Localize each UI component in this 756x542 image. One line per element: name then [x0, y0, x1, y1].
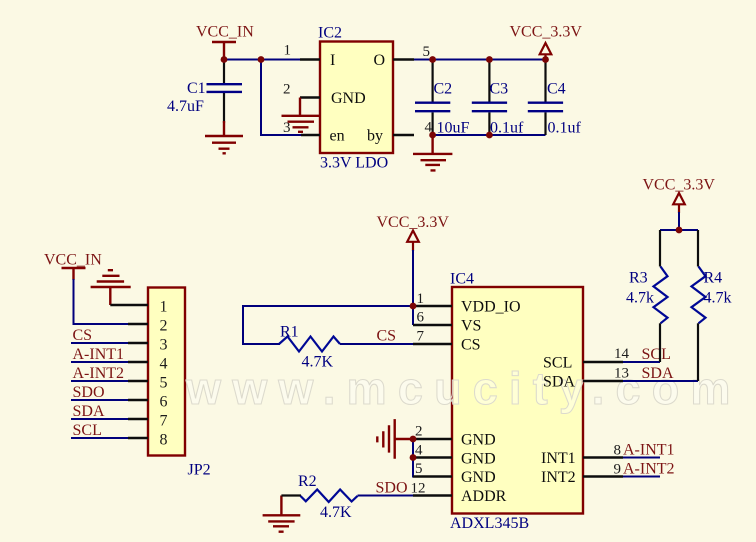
- power port VCC_3.3V (R3 R4): [673, 193, 685, 213]
- connector JP2 box: [148, 288, 185, 456]
- svg-text:R1: R1: [280, 324, 299, 341]
- svg-text:VS: VS: [461, 317, 481, 334]
- svg-text:VCC_3.3V: VCC_3.3V: [377, 214, 450, 231]
- power port VCC_IN (top): [212, 42, 236, 60]
- wire GND pins vertical: [413, 439, 452, 477]
- IC2 pin 3: [301, 134, 320, 136]
- svg-text:4.7K: 4.7K: [320, 504, 352, 521]
- IC4 pin 2 GND: [413, 438, 452, 440]
- svg-text:SDA: SDA: [543, 373, 575, 390]
- svg-text:1: 1: [160, 299, 168, 316]
- resistor R3: [659, 230, 661, 267]
- svg-text:R4: R4: [704, 270, 723, 287]
- IC4 pin 13 SDA: [583, 380, 623, 382]
- junction dot: [676, 227, 683, 234]
- svg-text:SCL: SCL: [73, 422, 102, 439]
- IC2 box: [320, 42, 393, 154]
- wire bottom rail: [433, 134, 546, 136]
- IC4 box: [452, 287, 583, 514]
- svg-text:1: 1: [417, 291, 425, 307]
- capacitor C4: [544, 60, 546, 136]
- svg-text:INT2: INT2: [541, 469, 576, 486]
- power port VCC_3.3V (top): [540, 43, 552, 60]
- svg-text:5: 5: [160, 375, 168, 392]
- svg-text:CS: CS: [461, 336, 481, 353]
- svg-text:10uF: 10uF: [437, 120, 470, 137]
- IC4 pin 1 VDD_IO: [413, 305, 452, 307]
- capacitor C2: [432, 60, 434, 136]
- svg-text:3: 3: [283, 120, 291, 136]
- IC4 pin 9 INT2: [583, 475, 623, 477]
- svg-text:4.7uF: 4.7uF: [167, 98, 204, 115]
- IC4 pin 12 ADDR: [413, 494, 452, 496]
- wire net SDO (JP2 pin 6): [71, 399, 130, 401]
- wire net SCL (JP2 pin 8): [71, 437, 130, 439]
- wire VS branch: [412, 306, 414, 325]
- svg-text:6: 6: [417, 310, 425, 326]
- IC2 pin 2: [300, 96, 320, 98]
- svg-text:SDA: SDA: [73, 403, 105, 420]
- wire top rail C2 C3 C4: [414, 59, 546, 61]
- svg-text:SCL: SCL: [642, 346, 671, 363]
- wire net A-INT1 (JP2 pin 4): [71, 361, 130, 363]
- svg-text:ADDR: ADDR: [461, 488, 507, 505]
- svg-text:1: 1: [284, 43, 292, 59]
- svg-text:O: O: [374, 52, 386, 69]
- svg-text:VCC_3.3V: VCC_3.3V: [643, 177, 716, 194]
- ground under C2 rail: [413, 135, 452, 170]
- svg-text:INT1: INT1: [541, 450, 576, 467]
- wire R2 to ADDR: [358, 495, 415, 497]
- svg-text:SDO: SDO: [73, 384, 105, 401]
- svg-text:4.7k: 4.7k: [626, 290, 654, 307]
- ground at IC2 pin 2: [282, 98, 321, 132]
- svg-text:0.1uf: 0.1uf: [548, 120, 582, 137]
- svg-text:5: 5: [423, 44, 431, 60]
- svg-text:C3: C3: [490, 81, 509, 98]
- svg-text:3.3V LDO: 3.3V LDO: [320, 155, 388, 172]
- junction dots top section: [221, 56, 228, 63]
- svg-text:A-INT2: A-INT2: [73, 365, 125, 382]
- svg-text:JP2: JP2: [188, 462, 211, 479]
- wire VCC_IN to JP2 pin 2: [74, 279, 131, 324]
- wire VCC to IC4 pin 1: [412, 250, 414, 306]
- svg-text:8: 8: [160, 432, 168, 449]
- svg-text:C1: C1: [187, 80, 206, 97]
- svg-text:2: 2: [283, 82, 291, 98]
- wire ground to JP2 pin 1: [110, 304, 148, 306]
- wire net A-INT2 (JP2 pin 5): [71, 380, 130, 382]
- svg-text:5: 5: [415, 461, 423, 477]
- IC4 pin 4 GND: [413, 456, 452, 458]
- svg-text:C2: C2: [434, 81, 453, 98]
- svg-text:7: 7: [417, 329, 425, 345]
- junction dots GND pins: [410, 436, 417, 443]
- svg-text:A-INT2: A-INT2: [623, 461, 675, 478]
- junction dot at VDD_IO: [410, 303, 417, 310]
- IC2 pin 4: [393, 134, 414, 136]
- svg-text:4: 4: [160, 356, 168, 373]
- IC4 pin 6 VS: [413, 324, 452, 326]
- svg-text:A-INT1: A-INT1: [623, 442, 675, 459]
- svg-text:VCC_IN: VCC_IN: [44, 252, 102, 269]
- svg-text:2: 2: [160, 318, 168, 335]
- svg-text:VDD_IO: VDD_IO: [461, 298, 521, 315]
- wire SDA to R4: [623, 380, 698, 382]
- svg-text:2: 2: [415, 424, 423, 440]
- IC4 pin 7 CS: [413, 343, 452, 345]
- svg-text:by: by: [367, 127, 383, 144]
- capacitor C1: [223, 60, 225, 124]
- svg-text:A-INT1: A-INT1: [73, 346, 125, 363]
- svg-text:I: I: [330, 52, 335, 69]
- svg-text:ADXL345B: ADXL345B: [450, 515, 529, 532]
- svg-text:4: 4: [415, 443, 423, 459]
- wire INT1: [623, 457, 660, 459]
- svg-text:8: 8: [614, 443, 622, 459]
- IC4 pin 14 SCL: [583, 361, 623, 363]
- svg-text:6: 6: [160, 394, 168, 411]
- power port VCC_IN (JP2): [62, 268, 86, 280]
- IC2 pin 5: [393, 58, 414, 60]
- resistor R4: [697, 230, 699, 267]
- svg-text:7: 7: [160, 413, 168, 430]
- svg-text:VCC_IN: VCC_IN: [196, 24, 254, 41]
- svg-text:en: en: [330, 127, 345, 144]
- ground at R2: [263, 496, 301, 532]
- wire net SDA (JP2 pin 7): [71, 418, 130, 420]
- svg-text:14: 14: [614, 346, 630, 362]
- svg-text:GND: GND: [461, 450, 496, 467]
- IC2 pin 1: [300, 58, 320, 60]
- ground under C1: [205, 121, 243, 153]
- svg-text:12: 12: [411, 481, 426, 497]
- ground (inverted) at JP2 pin 1: [91, 270, 131, 305]
- svg-text:4.7K: 4.7K: [302, 354, 334, 371]
- svg-text:0.1uf: 0.1uf: [490, 120, 524, 137]
- svg-text:13: 13: [614, 366, 629, 382]
- svg-text:GND: GND: [461, 469, 496, 486]
- wire net CS (JP2 pin 3): [71, 342, 130, 344]
- wire VCC rail to R3 R4: [660, 212, 698, 230]
- IC4 pin 5 GND: [413, 475, 452, 477]
- svg-text:VCC_3.3V: VCC_3.3V: [510, 24, 583, 41]
- svg-text:9: 9: [614, 462, 622, 478]
- svg-text:C4: C4: [547, 81, 566, 98]
- wire VCC_IN rail to IC2 pin 1: [224, 59, 300, 61]
- wire SCL to R3: [623, 361, 660, 363]
- wire INT2: [623, 476, 660, 478]
- svg-text:GND: GND: [461, 431, 496, 448]
- svg-text:SCL: SCL: [543, 354, 572, 371]
- wire ground to R2: [281, 494, 301, 496]
- svg-text:CS: CS: [377, 328, 397, 345]
- svg-text:SDO: SDO: [376, 480, 408, 497]
- capacitor C3: [488, 60, 490, 136]
- svg-text:CS: CS: [73, 327, 93, 344]
- svg-text:R2: R2: [298, 473, 317, 490]
- svg-text:R3: R3: [629, 270, 648, 287]
- svg-text:GND: GND: [331, 90, 366, 107]
- wire VDD_IO loop to R1: [243, 306, 413, 344]
- wire R1 to CS pin: [340, 343, 414, 345]
- power port VCC_3.3V (IC4): [407, 231, 419, 252]
- svg-text:IC4: IC4: [450, 271, 474, 288]
- resistor R2: [301, 490, 358, 503]
- svg-text:SDA: SDA: [642, 365, 674, 382]
- ground (sideways) at IC4 pin 2: [377, 419, 413, 459]
- resistor R1: [279, 337, 340, 352]
- svg-text:IC2: IC2: [318, 25, 342, 42]
- svg-text:3: 3: [160, 337, 168, 354]
- wire junction2 down to en: [261, 60, 301, 136]
- svg-text:4.7k: 4.7k: [704, 290, 732, 307]
- IC4 pin 8 INT1: [583, 456, 623, 458]
